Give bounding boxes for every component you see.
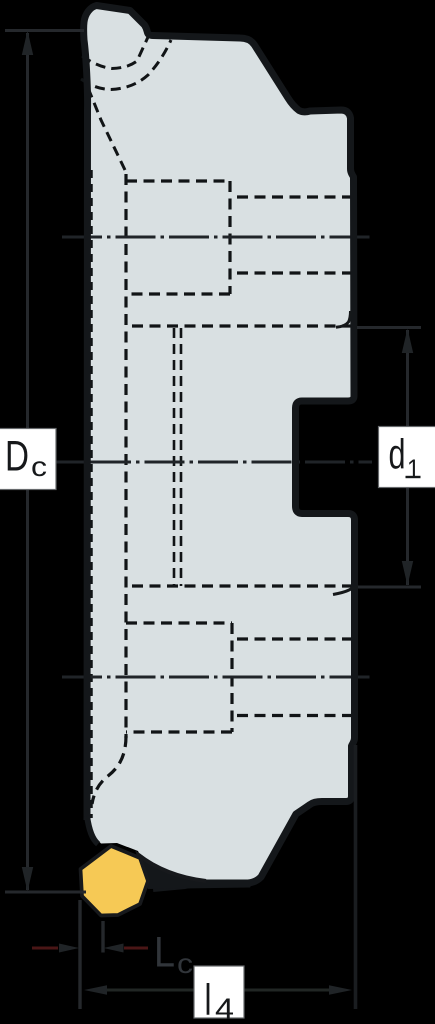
svg-text:c: c [177,948,193,979]
svg-text:c: c [31,451,47,482]
svg-text:D: D [5,433,29,481]
svg-text:L: L [154,929,175,977]
svg-text:d: d [389,431,406,478]
svg-text:4: 4 [215,993,234,1024]
svg-text:1: 1 [407,454,420,484]
svg-text:l: l [205,976,212,1024]
